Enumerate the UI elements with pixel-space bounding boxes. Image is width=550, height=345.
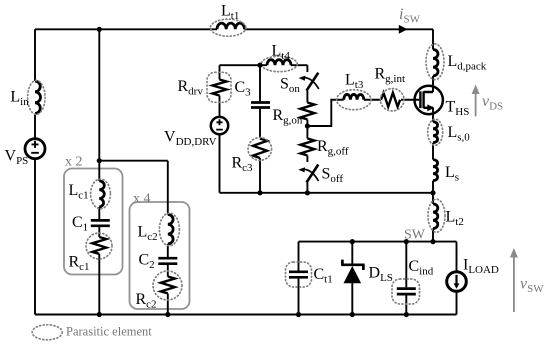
- capacitor C_1: [72, 214, 110, 234]
- wire Cind branch: [405, 242, 407, 315]
- wire x2 branch: [98, 29, 100, 314]
- source V_PS: [5, 139, 46, 167]
- capacitor C_3: [235, 79, 271, 108]
- svg-text:Rg,on: Rg,on: [273, 107, 303, 127]
- inductor L_c1: [69, 179, 111, 209]
- wire load box top: [299, 241, 457, 243]
- resistor R_drv: [178, 72, 232, 102]
- svg-text:VDD,DRV: VDD,DRV: [164, 129, 217, 149]
- svg-text:Ls: Ls: [445, 164, 459, 184]
- inductor L_c2: [138, 213, 180, 246]
- svg-text:Lt3: Lt3: [345, 72, 364, 92]
- svg-text:C3: C3: [235, 79, 252, 99]
- resistor R_g,on: [273, 103, 315, 127]
- node SW label: [404, 228, 426, 243]
- svg-text:Parasitic element: Parasitic element: [66, 325, 152, 339]
- resistor R_c2: [136, 271, 183, 311]
- svg-text:DLS: DLS: [369, 265, 393, 285]
- svg-text:C1: C1: [72, 214, 88, 234]
- wire x4 branch: [167, 161, 169, 315]
- wire Vdd branch: [219, 65, 221, 193]
- wire Iload branch: [456, 242, 458, 315]
- wire driver top rail: [220, 65, 308, 72]
- wire top rail: [35, 28, 433, 30]
- group box x4: [130, 202, 190, 309]
- inductor L_s: [433, 160, 459, 184]
- svg-text:Lt4: Lt4: [272, 43, 291, 63]
- svg-text:Lt2: Lt2: [446, 209, 464, 229]
- inductor L_t3: [337, 72, 371, 110]
- inductor L_s,0: [428, 119, 471, 145]
- capacitor C_t1: [286, 262, 333, 287]
- svg-text:Lin: Lin: [10, 89, 29, 109]
- svg-text:vDS: vDS: [482, 93, 503, 113]
- wire C3 branch: [259, 65, 261, 193]
- svg-text:Cind: Cind: [409, 258, 434, 278]
- wire x2 to x4: [99, 160, 168, 162]
- svg-text:Rc3: Rc3: [232, 155, 254, 175]
- wire gate ladder: [306, 91, 308, 193]
- wire left rail: [34, 29, 36, 314]
- svg-text:Lt1: Lt1: [221, 3, 239, 23]
- wire driver bottom rail: [220, 192, 434, 194]
- switch S_on: [280, 73, 319, 95]
- svg-text:THS: THS: [446, 99, 470, 119]
- source I_LOAD: [447, 257, 499, 292]
- svg-text:ILOAD: ILOAD: [463, 257, 499, 277]
- svg-text:iSW: iSW: [399, 6, 421, 26]
- wire DLS branch: [351, 242, 353, 315]
- svg-text:Son: Son: [280, 76, 300, 96]
- capacitor C_2: [139, 252, 178, 272]
- label x2: [65, 155, 83, 170]
- inductor L_d,pack: [426, 44, 487, 80]
- svg-text:Ls,0: Ls,0: [448, 124, 471, 144]
- svg-text:Rg,int: Rg,int: [375, 66, 406, 86]
- capacitor C_ind: [392, 258, 434, 304]
- arrow v_SW: [510, 248, 544, 312]
- resistor R_c3: [232, 138, 272, 174]
- svg-text:Rc1: Rc1: [69, 254, 90, 274]
- svg-text:Lc2: Lc2: [138, 224, 158, 244]
- resistor R_c1: [69, 233, 113, 273]
- group box x2: [64, 169, 123, 275]
- svg-text:Rdrv: Rdrv: [178, 78, 204, 98]
- svg-text:C2: C2: [139, 252, 155, 272]
- label x4: [133, 192, 151, 207]
- switch S_off: [298, 165, 343, 186]
- diode D_LS: [341, 260, 393, 284]
- svg-text:vSW: vSW: [520, 276, 544, 296]
- source V_DD,DRV: [164, 117, 228, 148]
- svg-text:Rc2: Rc2: [136, 291, 157, 311]
- svg-text:Soff: Soff: [322, 166, 344, 186]
- inductor L_in: [10, 80, 45, 114]
- transistor T_HS: [415, 86, 470, 118]
- svg-text:Rg,off: Rg,off: [317, 138, 349, 158]
- svg-text:x 4: x 4: [133, 192, 151, 207]
- svg-text:Ct1: Ct1: [314, 266, 333, 286]
- svg-text:Ld,pack: Ld,pack: [448, 53, 487, 73]
- wire bottom rail: [35, 314, 457, 316]
- inductor L_t4: [261, 43, 297, 72]
- inductor L_t2: [428, 199, 464, 232]
- arrow v_DS: [472, 85, 504, 117]
- resistor R_g,int: [375, 66, 406, 111]
- wire gate connection: [307, 100, 419, 126]
- wire right vertical: [432, 29, 434, 241]
- svg-text:x 2: x 2: [65, 155, 83, 170]
- resistor R_g,off: [300, 138, 348, 158]
- arrow i_SW: [399, 6, 421, 34]
- inductor L_t1: [210, 3, 245, 37]
- legend parasitic element: [32, 325, 152, 340]
- svg-text:Lc1: Lc1: [69, 182, 89, 202]
- wire Ct1 branch: [298, 242, 300, 315]
